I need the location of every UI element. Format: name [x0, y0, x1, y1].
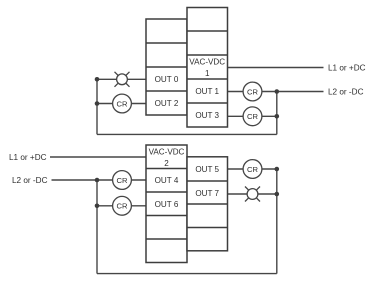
wire left bus group 2 (L2 return)	[96, 180, 98, 274]
svg-text:CR: CR	[247, 165, 258, 174]
net label L1 or +DC (group 2)	[9, 153, 47, 162]
wire OUT 5 row (right)	[228, 168, 277, 170]
svg-text:OUT 2: OUT 2	[155, 99, 179, 108]
net label L1 or +DC (group 1)	[328, 63, 366, 72]
terminal label OUT 0	[155, 75, 179, 84]
svg-text:OUT 6: OUT 6	[155, 200, 179, 209]
terminal label OUT 4	[155, 176, 179, 185]
svg-text:VAC-VDC: VAC-VDC	[189, 58, 225, 67]
svg-text:OUT 0: OUT 0	[155, 75, 179, 84]
svg-text:OUT 1: OUT 1	[195, 87, 219, 96]
relay coil CR, OUT 4 load	[113, 171, 132, 190]
svg-text:CR: CR	[117, 202, 128, 211]
terminal label VAC-VDC 1	[189, 58, 225, 79]
wire L1 group 1	[228, 67, 324, 69]
svg-text:CR: CR	[117, 176, 128, 185]
pilot lamp, OUT 0 load	[115, 72, 130, 87]
svg-text:CR: CR	[117, 99, 128, 108]
terminal strip left, group 2	[146, 145, 187, 263]
wire OUT 7 row (right)	[228, 193, 277, 195]
relay coil CR, OUT 3 load	[243, 107, 262, 126]
junction node, right bus at OUT 3 row	[275, 114, 280, 119]
terminal label OUT 3	[195, 111, 219, 120]
wire L2 group 2	[52, 179, 98, 181]
junction node, left bus at OUT 4 row group 2	[95, 178, 100, 183]
terminal strip left, group 1	[146, 19, 187, 115]
svg-text:OUT 3: OUT 3	[195, 111, 219, 120]
junction node, left bus at OUT 2 row	[95, 101, 100, 106]
wire right bus group 2	[276, 169, 278, 274]
svg-text:OUT 5: OUT 5	[195, 165, 219, 174]
svg-text:L1 or +DC: L1 or +DC	[328, 63, 366, 72]
terminal label OUT 5	[195, 165, 219, 174]
wire OUT 2 row (left)	[97, 103, 146, 105]
net label L2 or -DC (group 2)	[12, 176, 48, 185]
terminal strip right, group 2	[187, 157, 228, 251]
svg-text:1: 1	[205, 69, 210, 78]
svg-text:VAC-VDC: VAC-VDC	[149, 148, 185, 157]
terminal label OUT 6	[155, 200, 179, 209]
wire left bus group 1 (L2 return)	[96, 79, 98, 134]
wire L2 group 1	[277, 91, 324, 93]
svg-text:L2 or -DC: L2 or -DC	[12, 176, 48, 185]
svg-text:OUT 7: OUT 7	[195, 189, 219, 198]
wire OUT 3 row (right)	[228, 115, 277, 117]
terminal label OUT 1	[195, 87, 219, 96]
relay coil CR, OUT 1 load	[243, 82, 262, 101]
junction node, left bus at OUT 0 row	[95, 77, 100, 82]
relay coil CR, OUT 5 load	[243, 160, 262, 179]
terminal strip right, group 1	[187, 8, 228, 128]
svg-text:L1 or +DC: L1 or +DC	[9, 153, 47, 162]
terminal label OUT 7	[195, 189, 219, 198]
svg-text:L2 or -DC: L2 or -DC	[328, 87, 364, 96]
junction node, right bus at OUT 7 row group 2	[275, 192, 280, 197]
wire OUT 6 row (left)	[97, 205, 146, 207]
relay coil CR, OUT 2 load	[113, 94, 132, 113]
wire right bus group 1	[276, 92, 278, 135]
pilot lamp, OUT 7 load	[245, 187, 260, 202]
terminal label OUT 2	[155, 99, 179, 108]
svg-text:CR: CR	[247, 112, 258, 121]
wire bottom return group 1	[97, 133, 277, 135]
wire OUT 1 row (right)	[228, 91, 277, 93]
wire OUT 0 row (left)	[97, 78, 146, 80]
wire OUT 4 row (left)	[97, 179, 146, 181]
svg-text:2: 2	[164, 159, 169, 168]
relay coil CR, OUT 6 load	[113, 196, 132, 215]
wire L1 group 2	[50, 156, 146, 158]
svg-text:CR: CR	[247, 87, 258, 96]
svg-text:OUT 4: OUT 4	[155, 176, 179, 185]
junction node, right bus at L2 row group 1	[275, 89, 280, 94]
net label L2 or -DC (group 1)	[328, 87, 364, 96]
wire bottom return group 2	[97, 273, 277, 275]
terminal label VAC-VDC 2	[149, 148, 185, 169]
junction node, left bus at OUT 6 row group 2	[95, 204, 100, 209]
junction node, right bus at OUT 5 row group 2	[275, 167, 280, 172]
